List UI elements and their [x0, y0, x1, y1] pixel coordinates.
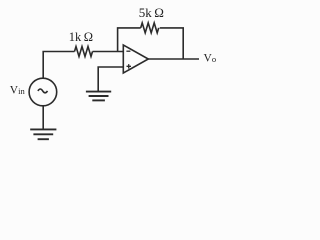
wire: feedback right segment and down to output	[160, 28, 184, 59]
ground (op-amp + input)	[86, 92, 111, 101]
wire: feedback left vertical	[118, 28, 141, 52]
op-amp minus sign	[126, 50, 130, 52]
sine symbol inside source	[38, 89, 48, 93]
svg-text:Vin: Vin	[10, 84, 26, 96]
wire: non-inverting input to ground	[98, 67, 123, 92]
wire: input left segment and down to source	[43, 52, 74, 79]
svg-text:1k Ω: 1k Ω	[69, 30, 93, 44]
svg-text:Vo: Vo	[204, 53, 217, 65]
resistor R2 5k ohm zigzag	[141, 23, 159, 33]
wire: input right segment to op-amp inverting input	[93, 51, 124, 53]
op-amp U1 triangle	[123, 45, 148, 73]
ground (source)	[30, 129, 56, 139]
wire: output	[148, 58, 199, 60]
voltage source Vin circle	[29, 78, 57, 106]
op-amp plus sign	[127, 64, 132, 69]
svg-text:5k Ω: 5k Ω	[139, 5, 164, 20]
resistor R1 1k ohm zigzag	[75, 47, 93, 57]
wire: source bottom to ground	[42, 106, 44, 130]
